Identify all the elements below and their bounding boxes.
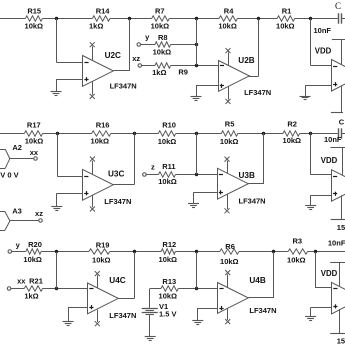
wire R13 to U4B minus input xyxy=(178,288,217,290)
svg-text:R8: R8 xyxy=(158,33,168,42)
U4C top power stub xyxy=(97,275,99,288)
resistor R16 xyxy=(92,131,111,136)
node U4B output junction xyxy=(272,250,275,253)
label U2C xyxy=(105,51,121,60)
resistor R17 xyxy=(24,131,42,136)
U2C top power stub xyxy=(92,46,94,60)
label xz row1 xyxy=(132,54,140,63)
svg-text:U2B: U2B xyxy=(238,56,254,65)
resistor R6 xyxy=(220,249,239,254)
svg-text:U3B: U3B xyxy=(239,171,255,180)
X3 inverting pin mark xyxy=(333,288,337,290)
node R8 junction xyxy=(195,43,198,46)
wire X2 minus net vertical xyxy=(310,133,312,175)
label C value 10nF row2 xyxy=(324,135,342,144)
label z row2 xyxy=(151,162,155,171)
U2C bottom power pin x xyxy=(90,94,95,99)
svg-text:10kΩ: 10kΩ xyxy=(276,22,295,31)
label y row1 xyxy=(145,33,150,42)
resistor R4 xyxy=(219,16,237,21)
label R5 xyxy=(225,120,235,129)
wire R12 to R6 xyxy=(175,251,219,253)
U2C non-inverting pin mark xyxy=(84,77,88,81)
label A2 gain V 0 V xyxy=(0,170,18,179)
resistor R12 xyxy=(161,249,175,254)
wire R8 to U2B minus node xyxy=(171,44,197,46)
wire R15 to R14 xyxy=(42,18,92,20)
wire xx to R21 xyxy=(11,288,25,290)
label y row3 xyxy=(16,241,21,250)
label R3 xyxy=(293,236,303,245)
ground U2B plus input xyxy=(191,97,202,101)
label 15 row2 xyxy=(337,223,345,232)
label R21 xyxy=(29,277,43,286)
label R16 value 10k xyxy=(91,137,110,146)
resistor R10 xyxy=(158,131,175,136)
label C row2 xyxy=(339,117,345,126)
svg-text:R11: R11 xyxy=(162,162,175,171)
svg-text:10kΩ: 10kΩ xyxy=(220,137,239,146)
wire R1 to C xyxy=(295,18,338,20)
wire U2C output xyxy=(113,70,129,72)
label R6 value 10k xyxy=(220,257,239,266)
U2B inverting pin mark xyxy=(220,65,224,67)
label VDD row1 xyxy=(315,46,332,55)
wire U3B output xyxy=(248,183,264,185)
wire U2C output to feedback node xyxy=(129,19,131,71)
U3C bottom power pin x xyxy=(90,207,95,212)
wire U4B plus to ground xyxy=(198,308,218,321)
wire z to R11 xyxy=(146,174,159,176)
wire X3 plus to ground xyxy=(311,308,332,317)
U3B top power pin x xyxy=(225,157,230,162)
resistor R9 xyxy=(155,63,171,68)
wire U4C plus to ground xyxy=(68,307,87,322)
wire U3C minus net horizontal xyxy=(57,176,82,178)
label U3C LF347N xyxy=(104,197,131,206)
label U3B xyxy=(239,171,255,180)
label R17 value 10k xyxy=(25,136,44,145)
label xx row3 xyxy=(17,277,26,286)
wire R17 to R16 xyxy=(43,133,92,135)
label R15 value 10k xyxy=(25,21,44,30)
svg-text:U4C: U4C xyxy=(109,276,125,285)
wire R19 to R12 xyxy=(110,251,161,253)
wire R3 to edge (capacitor net) xyxy=(308,251,345,253)
label R15 xyxy=(27,6,41,15)
node U3B minus junction xyxy=(195,132,198,135)
node integrator X2 minus junction xyxy=(309,132,312,135)
op-amp X3 row3 (clipped) xyxy=(332,282,345,314)
svg-text:R12: R12 xyxy=(162,240,176,249)
label V1 value 1.5 V xyxy=(159,310,177,319)
svg-text:R7: R7 xyxy=(155,6,165,15)
wire R10 to R5 xyxy=(176,133,222,135)
wire C row2 to edge xyxy=(341,133,345,135)
VDD rail row2 xyxy=(331,148,345,176)
wire U3B plus to ground xyxy=(194,192,218,203)
label R1 xyxy=(282,6,292,15)
U2C inverting pin mark xyxy=(84,62,88,64)
wire R6 to R3 xyxy=(239,251,288,253)
svg-text:C: C xyxy=(339,117,345,126)
U4B non-inverting pin mark xyxy=(219,306,223,310)
U2B bottom power stub xyxy=(228,86,230,99)
svg-text:10nF: 10nF xyxy=(314,26,332,35)
label V1 xyxy=(159,302,168,311)
U4C bottom power pin x xyxy=(95,321,100,326)
label C row1 xyxy=(335,1,341,11)
svg-text:10nF: 10nF xyxy=(328,238,345,247)
ground X2 plus input xyxy=(305,206,316,210)
svg-text:R19: R19 xyxy=(96,241,110,250)
wire R20 to R19 xyxy=(41,251,89,253)
svg-text:R2: R2 xyxy=(287,120,297,129)
svg-text:LF347N: LF347N xyxy=(244,88,271,97)
label R2 xyxy=(287,120,297,129)
ground U4B plus input xyxy=(192,321,203,325)
terminal xz output A3 xyxy=(39,219,43,223)
wire V1 to ground xyxy=(149,315,151,337)
wire U2B output xyxy=(249,76,259,78)
VDD rail row3 xyxy=(330,262,345,286)
U4B inverting pin mark xyxy=(219,288,223,290)
label R13 value 10k xyxy=(159,292,178,301)
svg-text:10kΩ: 10kΩ xyxy=(218,22,237,31)
label R8 value 10k xyxy=(153,47,172,56)
node U4C output junction xyxy=(133,250,136,253)
label R19 value 10k xyxy=(92,256,111,265)
svg-text:10kΩ: 10kΩ xyxy=(151,22,170,31)
U3C top power stub xyxy=(92,161,94,175)
svg-text:z: z xyxy=(151,162,155,171)
wire U3B minus net vertical xyxy=(196,133,198,175)
svg-text:VDD: VDD xyxy=(321,269,338,278)
label U4C xyxy=(109,276,125,285)
svg-text:xz: xz xyxy=(132,54,140,63)
svg-text:10kΩ: 10kΩ xyxy=(23,255,42,264)
svg-text:U3C: U3C xyxy=(108,169,124,178)
svg-text:C: C xyxy=(335,1,341,11)
svg-text:10kΩ: 10kΩ xyxy=(158,137,177,146)
label R2 value 10k xyxy=(283,136,302,145)
svg-text:R13: R13 xyxy=(162,277,176,286)
label R21 value 1k xyxy=(24,291,38,300)
wire U4B output to node xyxy=(273,252,275,298)
U2C top power pin x xyxy=(90,42,95,47)
svg-text:LF347N: LF347N xyxy=(239,197,266,206)
svg-text:R21: R21 xyxy=(29,277,43,286)
node U2C minus junction xyxy=(55,17,58,20)
op-amp X2 row2 (clipped) xyxy=(332,170,345,202)
label A3 xyxy=(12,207,22,216)
wire U4C output to node xyxy=(134,252,136,299)
X3 non-inverting pin mark xyxy=(333,304,337,308)
resistor R19 xyxy=(89,249,110,254)
wire A2 output xyxy=(10,158,34,160)
svg-text:LF347N: LF347N xyxy=(249,306,276,315)
label U4C LF347N xyxy=(109,311,136,320)
capacitor C row1 xyxy=(339,13,342,23)
svg-text:LF347N: LF347N xyxy=(110,82,137,91)
label U3B LF347N xyxy=(239,197,266,206)
svg-text:10kΩ: 10kΩ xyxy=(158,177,177,186)
U4C non-inverting pin mark xyxy=(89,305,93,309)
U3B inverting pin mark xyxy=(219,174,223,176)
terminal xx output A2 xyxy=(34,157,38,161)
svg-text:A2: A2 xyxy=(12,143,22,152)
svg-text:VDD: VDD xyxy=(315,46,332,55)
ground U4C plus input xyxy=(63,322,74,326)
resistor R15 xyxy=(25,16,42,21)
terminal xz row1 xyxy=(138,64,142,68)
svg-text:R9: R9 xyxy=(178,68,188,77)
U3B top power stub xyxy=(227,161,229,174)
multiplier A2 (clipped) xyxy=(0,149,10,168)
label R11 value 10k xyxy=(158,177,177,186)
X1 inverting pin mark xyxy=(333,66,337,68)
wire A3 output xyxy=(10,220,39,222)
U4C top power pin x xyxy=(95,271,100,276)
X2 inverting pin mark xyxy=(333,176,337,178)
label R20 xyxy=(28,240,42,249)
svg-text:10kΩ: 10kΩ xyxy=(92,256,111,265)
label R1 value 10k xyxy=(276,22,295,31)
label U3C xyxy=(108,169,124,178)
U4B bottom power pin x xyxy=(225,319,230,324)
svg-text:R6: R6 xyxy=(225,242,235,251)
wire R11 to U3B minus input xyxy=(176,174,218,176)
terminal y row1 xyxy=(137,43,141,47)
wire R5 to R2 xyxy=(238,133,283,135)
capacitor C row2 xyxy=(339,128,342,138)
wire xz to R9 xyxy=(141,65,155,67)
node U3B output junction xyxy=(262,132,265,135)
node U3C minus junction xyxy=(56,132,59,135)
label R6 xyxy=(225,242,235,251)
svg-text:xx: xx xyxy=(17,277,26,286)
svg-text:xx: xx xyxy=(30,148,39,157)
svg-text:10kΩ: 10kΩ xyxy=(283,136,302,145)
X2 bottom power stub xyxy=(341,195,343,220)
svg-text:LF347N: LF347N xyxy=(109,311,136,320)
wire C to edge xyxy=(341,18,345,20)
wire row1 input net x xyxy=(0,18,25,20)
wire R4 to R1 xyxy=(237,18,277,20)
label R14 value 1k xyxy=(89,21,103,30)
wire U4C output xyxy=(118,298,134,300)
wire U2B plus to ground xyxy=(196,86,218,97)
resistor R7 xyxy=(152,16,170,21)
op-amp U3C xyxy=(83,169,114,200)
svg-text:10kΩ: 10kΩ xyxy=(91,137,110,146)
X1 non-inverting pin mark xyxy=(333,82,337,86)
node U2B output junction xyxy=(257,17,260,20)
wire X1 plus to ground xyxy=(305,85,331,96)
resistor R3 xyxy=(288,249,307,254)
svg-text:V 0 V: V 0 V xyxy=(0,170,18,179)
node U2B minus junction xyxy=(195,17,198,20)
ground U2C plus input xyxy=(51,92,62,96)
node U2C output junction xyxy=(128,17,131,20)
label R10 value 10k xyxy=(158,137,177,146)
wire y to R8 xyxy=(140,44,155,46)
svg-text:U2C: U2C xyxy=(105,51,121,60)
resistor R1 xyxy=(277,16,295,21)
svg-text:R16: R16 xyxy=(96,120,110,129)
wire U4B minus net vertical xyxy=(196,252,198,289)
node U4B minus junction xyxy=(195,250,198,253)
U3C non-inverting pin mark xyxy=(84,191,88,195)
node R9 junction xyxy=(195,64,198,67)
U3B bottom power stub xyxy=(227,194,229,209)
label R12 value 10k xyxy=(159,255,178,264)
svg-text:1kΩ: 1kΩ xyxy=(24,291,38,300)
U4C inverting pin mark xyxy=(89,288,93,290)
U4B top power pin x xyxy=(225,270,230,275)
svg-text:R15: R15 xyxy=(27,6,41,15)
VEE T-bar row3 xyxy=(330,333,345,335)
wire R16 to R10 xyxy=(111,133,159,135)
svg-text:xz: xz xyxy=(35,209,43,218)
label R17 xyxy=(27,121,41,130)
svg-text:10kΩ: 10kΩ xyxy=(220,257,239,266)
svg-text:R3: R3 xyxy=(293,236,303,245)
U2C bottom power stub xyxy=(92,81,94,94)
wire R2 to C row2 xyxy=(300,133,338,135)
label U4B xyxy=(249,276,265,285)
X1 bottom power stub xyxy=(341,86,343,113)
VEE T-bar row2 xyxy=(331,219,345,221)
wire R21 to U4C minus input xyxy=(43,288,88,290)
svg-text:R14: R14 xyxy=(96,6,111,15)
wire X1 minus net horizontal xyxy=(311,65,332,67)
label U2B LF347N xyxy=(244,88,271,97)
node U3C output junction xyxy=(133,132,136,135)
label R11 xyxy=(162,162,175,171)
svg-text:15: 15 xyxy=(337,337,345,345)
wire y to R20 xyxy=(11,251,25,253)
svg-text:R17: R17 xyxy=(27,121,41,130)
svg-text:10kΩ: 10kΩ xyxy=(25,136,44,145)
terminal xx row3 xyxy=(7,287,11,291)
wire U2C minus net horizontal xyxy=(56,62,82,64)
wire U2B minus net vertical xyxy=(196,19,198,65)
ground U3B plus input xyxy=(188,204,199,208)
svg-text:LF347N: LF347N xyxy=(104,197,131,206)
wire R14 to R7 xyxy=(110,18,152,20)
U4C bottom power stub xyxy=(97,310,99,322)
resistor R5 xyxy=(221,131,238,136)
wire U3C plus to ground xyxy=(57,193,83,206)
label 15 row3 xyxy=(337,337,345,345)
wire X2 plus to ground xyxy=(311,195,332,205)
wire R9 to U2B minus input xyxy=(171,65,218,67)
X2 non-inverting pin mark xyxy=(333,192,337,196)
label R3 value 10k xyxy=(287,255,306,264)
op-amp U3B xyxy=(218,168,249,199)
svg-text:U4B: U4B xyxy=(249,276,265,285)
label C value 10nF row1 xyxy=(314,26,332,35)
svg-text:1kΩ: 1kΩ xyxy=(89,21,103,30)
resistor R13 xyxy=(161,286,178,291)
multiplier A3 (clipped) xyxy=(0,212,10,231)
label R9 xyxy=(178,68,188,77)
U3C inverting pin mark xyxy=(84,176,88,178)
label C value 10nF row3 xyxy=(328,238,345,247)
resistor R11 xyxy=(159,172,176,177)
VDD rail row1 xyxy=(332,39,345,65)
U2B top power pin x xyxy=(226,48,231,53)
label R7 xyxy=(155,6,165,15)
svg-text:R10: R10 xyxy=(162,121,176,130)
battery V1 xyxy=(142,309,158,315)
svg-text:R5: R5 xyxy=(225,120,235,129)
label U2C LF347N xyxy=(110,82,137,91)
U4B top power stub xyxy=(227,274,229,287)
ground X3 plus input xyxy=(305,317,316,321)
op-amp U2C xyxy=(83,56,114,87)
label R16 xyxy=(96,120,110,129)
label R8 xyxy=(158,33,168,42)
op-amp X1 row1 (clipped) xyxy=(332,60,345,92)
svg-text:1.5 V: 1.5 V xyxy=(159,310,177,319)
resistor R8 xyxy=(155,42,171,47)
label R5 value 10k xyxy=(220,137,239,146)
op-amp U4C xyxy=(88,283,119,314)
wire U3B output to node xyxy=(263,133,265,184)
label R12 xyxy=(162,240,176,249)
wire X1 minus net vertical xyxy=(310,19,312,66)
label VDD row3 xyxy=(321,269,338,278)
wire U4B output xyxy=(248,297,274,299)
wire U2C plus to ground xyxy=(56,79,83,91)
X3 bottom power stub xyxy=(339,309,341,333)
op-amp U2B xyxy=(219,61,250,92)
label U2B xyxy=(238,56,254,65)
op-amp U4B xyxy=(218,283,249,314)
VEE T-bar row1 xyxy=(331,112,343,114)
node R21 junction xyxy=(55,287,58,290)
ground V1 xyxy=(145,337,156,341)
svg-text:R1: R1 xyxy=(282,6,292,15)
node integrator X1 minus junction xyxy=(309,17,312,20)
svg-text:A3: A3 xyxy=(12,207,22,216)
wire U2C minus net vertical xyxy=(56,19,58,63)
label U4B LF347N xyxy=(249,306,276,315)
U3B non-inverting pin mark xyxy=(219,190,223,194)
wire U2B output to node xyxy=(258,19,260,76)
svg-text:10kΩ: 10kΩ xyxy=(159,255,178,264)
node R11 junction xyxy=(195,173,198,176)
U2B top power stub xyxy=(228,52,230,65)
resistor R2 xyxy=(283,131,300,136)
label R20 value 10k xyxy=(23,255,42,264)
svg-text:R20: R20 xyxy=(28,240,42,249)
svg-text:10kΩ: 10kΩ xyxy=(287,255,306,264)
wire U4C minus net vertical xyxy=(56,252,58,289)
svg-text:VDD: VDD xyxy=(321,156,338,165)
label VDD row2 xyxy=(321,156,338,165)
svg-text:10kΩ: 10kΩ xyxy=(25,21,44,30)
svg-text:10kΩ: 10kΩ xyxy=(159,292,178,301)
wire X2 minus net horizontal xyxy=(311,174,331,176)
ground X1 plus input xyxy=(300,97,311,100)
label A2 xyxy=(12,143,22,152)
svg-text:R4: R4 xyxy=(224,6,234,15)
label R14 xyxy=(96,6,111,15)
label R4 value 10k xyxy=(218,22,237,31)
